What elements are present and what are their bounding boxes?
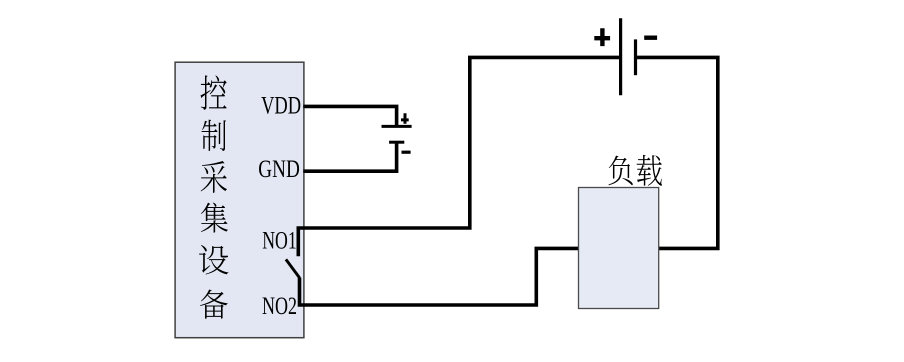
device label char 设 [199,245,228,274]
battery BT1 minus sign [644,36,657,40]
wire VDD to battery BT2 positive [303,106,396,125]
wire NO2 to load left terminal [300,248,579,305]
svg-text:NO2: NO2 [262,293,297,320]
control/acquisition device box U1 [175,62,304,338]
load label char 载 [637,155,662,186]
device label char 制 [202,120,226,151]
device label char 集 [201,202,228,232]
svg-text:VDD: VDD [261,93,301,120]
svg-text:GND: GND [258,156,300,183]
load box [579,188,659,309]
battery BT1 positive plate (long) [619,18,622,95]
device label char 备 [200,289,228,318]
wire battery BT1 negative to load right terminal [636,57,718,248]
wire battery BT2 negative to GND [303,143,396,171]
svg-text:NO1: NO1 [262,227,297,254]
battery BT2 minus sign [402,151,411,154]
device label char 控 [201,75,227,109]
battery BT2 positive plate (long) [382,125,412,128]
wire NO1 to battery BT1 positive (with riser) [298,57,619,256]
battery BT2 plus sign [401,113,409,124]
device label char 采 [201,161,227,193]
battery BT1 plus sign [594,28,610,46]
battery BT2 negative plate (short) [389,141,404,144]
load label char 负 [609,156,633,186]
battery BT1 negative plate (short) [634,39,637,75]
switch S1 blade between NO1 and NO2 [286,259,300,278]
